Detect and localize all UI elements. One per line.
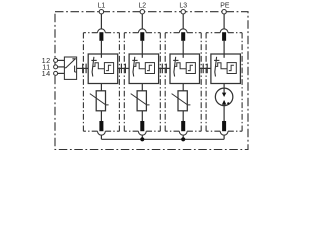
terminal 14 (remote signalling contact) bbox=[42, 69, 58, 78]
plug contact bottom, module 2 bbox=[138, 121, 146, 135]
triggered spark gap, module 4 bbox=[211, 54, 241, 84]
wire L3 feed bbox=[182, 14, 184, 29]
enclosure border (device outline, dash-dot) bbox=[55, 12, 248, 150]
terminal PE (protective earth input) bbox=[220, 3, 230, 14]
wire spark gap to gas discharge tube, module 4 bbox=[223, 84, 225, 89]
plug contact bottom, module 1 bbox=[98, 121, 106, 135]
wire plug to spark gap, module 4 bbox=[223, 41, 225, 58]
gas discharge tube (spark gap to PE), module 4 bbox=[215, 88, 233, 106]
module 3 boundary (plug-in arrester, dash-dot) bbox=[165, 33, 201, 132]
wire gas discharge tube to bottom plug, module 4 bbox=[223, 106, 225, 121]
wire spark gap to varistor, module 3 bbox=[182, 84, 184, 91]
plug contact bottom, module 3 bbox=[179, 121, 187, 135]
wire plug to spark gap, module 1 bbox=[100, 41, 102, 58]
module 2 boundary (plug-in arrester, dash-dot) bbox=[124, 33, 160, 132]
wire varistor to bottom plug, module 2 bbox=[141, 111, 143, 121]
wire terminal 11 to contact box bbox=[57, 66, 64, 68]
terminal L3 (phase input) bbox=[179, 3, 187, 14]
wire trigger line module 3 to module 4 bbox=[200, 67, 211, 69]
wire L2 feed bbox=[141, 14, 143, 29]
terminal 12 (remote signalling contact) bbox=[42, 56, 58, 65]
plug contact top, module 3 bbox=[179, 29, 187, 41]
varistor, module 2 bbox=[131, 91, 150, 111]
junction node at module 2 on PE bus bbox=[140, 137, 144, 141]
wire L1 feed bbox=[100, 14, 102, 29]
wire bottom plug to PE bus, module 2 bbox=[141, 135, 143, 139]
wire trigger line contact box to module 1 bbox=[77, 67, 89, 69]
module 4 boundary (plug-in arrester, dash-dot) bbox=[206, 33, 242, 132]
remote signalling changeover contact K1 bbox=[64, 57, 76, 79]
plug contact top, module 1 bbox=[98, 29, 106, 41]
plug contact bottom, module 4 bbox=[220, 121, 228, 135]
wire varistor to bottom plug, module 1 bbox=[100, 111, 102, 121]
plug contact bars between module 2 and 3 bbox=[162, 64, 166, 74]
wire terminal 14 to contact box bbox=[57, 72, 64, 74]
varistor, module 3 bbox=[172, 91, 191, 111]
terminal L2 (phase input) bbox=[138, 3, 146, 14]
junction node at module 3 on PE bus bbox=[181, 137, 185, 141]
wire bottom plug to PE bus, module 3 bbox=[182, 135, 184, 139]
varistor, module 1 bbox=[90, 91, 109, 111]
wire varistor to bottom plug, module 3 bbox=[182, 111, 184, 121]
svg-text:PE: PE bbox=[220, 3, 230, 10]
plug contact bars between module 3 and 4 bbox=[203, 64, 207, 74]
PE equipotential bus wire bbox=[101, 138, 224, 140]
wire trigger line module 1 to module 2 bbox=[118, 67, 129, 69]
plug contact bars between module 1 and 2 bbox=[121, 64, 125, 74]
terminal 11 (remote signalling contact) bbox=[42, 62, 57, 71]
terminal L1 (phase input) bbox=[98, 3, 106, 14]
svg-text:14: 14 bbox=[42, 69, 51, 78]
plug contact bars (base/module interface, left) bbox=[83, 64, 86, 74]
wire terminal 12 to contact box bbox=[57, 59, 64, 61]
triggered spark gap, module 2 bbox=[129, 54, 159, 84]
wire bottom plug to PE bus, module 1 bbox=[100, 135, 102, 139]
wire spark gap to varistor, module 2 bbox=[141, 84, 143, 91]
wire trigger line module 2 to module 3 bbox=[159, 67, 170, 69]
triggered spark gap, module 1 bbox=[88, 54, 118, 84]
wire PE feed bbox=[223, 14, 225, 29]
wire plug to spark gap, module 3 bbox=[182, 41, 184, 58]
triggered spark gap, module 3 bbox=[170, 54, 200, 84]
svg-text:L3: L3 bbox=[179, 3, 187, 10]
plug contact top, module 4 bbox=[220, 29, 228, 41]
module 1 boundary (plug-in arrester, dash-dot) bbox=[83, 33, 119, 132]
plug contact top, module 2 bbox=[138, 29, 146, 41]
wire bottom plug to PE bus, module 4 bbox=[223, 135, 225, 139]
svg-text:L1: L1 bbox=[98, 3, 106, 10]
wire plug to spark gap, module 2 bbox=[141, 41, 143, 58]
wire spark gap to varistor, module 1 bbox=[100, 84, 102, 91]
svg-text:L2: L2 bbox=[138, 3, 146, 10]
